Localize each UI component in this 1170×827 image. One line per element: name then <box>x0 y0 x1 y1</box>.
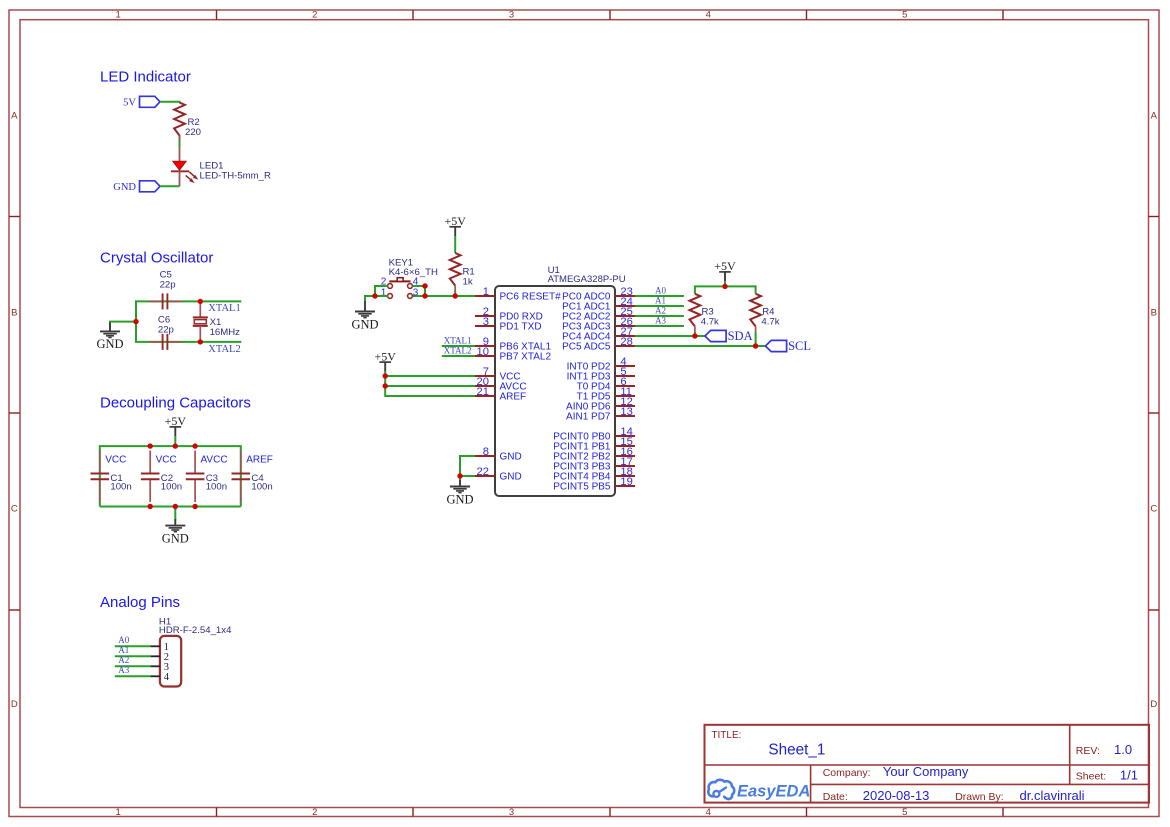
capacitor C3 <box>186 451 227 503</box>
pin 1 of H1 <box>151 642 169 653</box>
junction <box>148 504 153 509</box>
LED LED1 <box>171 147 271 186</box>
junction <box>422 293 427 298</box>
svg-text:C: C <box>1150 503 1157 514</box>
junction <box>457 473 462 478</box>
wire <box>160 185 180 187</box>
svg-text:AVCC: AVCC <box>201 454 228 465</box>
pin 17 PCINT3 PB3 <box>553 456 635 473</box>
svg-text:Drawn By:: Drawn By: <box>955 791 1003 803</box>
svg-text:GND: GND <box>446 492 473 506</box>
svg-text:Sheet:: Sheet: <box>1076 770 1106 782</box>
svg-text:AREF: AREF <box>500 392 527 403</box>
wire to ground <box>110 322 136 324</box>
junction <box>383 383 388 388</box>
resistor R2 <box>174 103 201 142</box>
svg-text:1: 1 <box>483 286 489 298</box>
svg-text:XTAL2: XTAL2 <box>208 344 240 355</box>
pin 19 PCINT5 PB5 <box>553 476 635 493</box>
svg-text:21: 21 <box>477 386 489 398</box>
wire bottom rail <box>100 506 241 508</box>
svg-text:1: 1 <box>116 10 121 21</box>
svg-text:16MHz: 16MHz <box>210 327 241 338</box>
svg-text:dr.clavinrali: dr.clavinrali <box>1020 788 1085 803</box>
svg-text:22p: 22p <box>160 280 176 291</box>
svg-text:A2: A2 <box>655 305 666 315</box>
wire A3 <box>115 675 151 677</box>
junction <box>133 319 138 324</box>
svg-text:XTAL1: XTAL1 <box>208 303 240 314</box>
svg-text:AIN1 PD7: AIN1 PD7 <box>566 412 611 423</box>
pin 4 INT0 PD2 <box>567 356 635 373</box>
svg-text:Decoupling Capacitors: Decoupling Capacitors <box>100 394 251 411</box>
svg-text:100n: 100n <box>251 482 272 493</box>
pin 14 PCINT0 PB0 <box>553 426 635 443</box>
capacitor C2 <box>141 451 182 503</box>
svg-text:+5V: +5V <box>444 214 466 228</box>
wire <box>635 305 684 307</box>
svg-text:AREF: AREF <box>246 454 273 465</box>
svg-text:C: C <box>11 503 18 514</box>
svg-text:A1: A1 <box>655 295 666 305</box>
wire SCL <box>635 345 765 347</box>
wire top rail <box>695 286 756 293</box>
junction <box>192 443 197 448</box>
svg-text:+5V: +5V <box>165 414 187 428</box>
pin 9 PB6 XTAL1 <box>475 336 551 353</box>
svg-text:10: 10 <box>477 346 489 358</box>
wire pin1 to gnd <box>365 296 388 302</box>
svg-text:220: 220 <box>185 127 201 138</box>
resistor R1 <box>450 253 475 291</box>
svg-text:5V: 5V <box>123 98 136 109</box>
svg-text:A0: A0 <box>655 285 666 295</box>
junction <box>198 339 203 344</box>
EasyEDA logo <box>708 780 810 801</box>
ground <box>96 323 123 352</box>
title block texts <box>711 730 1138 803</box>
capacitor C4 <box>232 451 273 503</box>
ground <box>351 301 378 331</box>
svg-text:3: 3 <box>509 10 514 21</box>
svg-text:13: 13 <box>620 406 632 418</box>
pin 15 PCINT1 PB1 <box>553 436 635 453</box>
wire <box>724 281 726 286</box>
pin 24 PC1 ADC1 <box>562 296 635 313</box>
net flag SCL <box>765 340 786 351</box>
svg-text:4: 4 <box>706 807 711 818</box>
pin 16 PCINT2 PB2 <box>553 446 635 463</box>
svg-text:3: 3 <box>509 807 514 818</box>
svg-text:TITLE:: TITLE: <box>711 730 741 741</box>
junction <box>173 443 178 448</box>
pin 6 T0 PD4 <box>577 376 635 393</box>
svg-text:3: 3 <box>413 287 419 298</box>
pin 28 PC5 ADC5 <box>562 336 635 353</box>
svg-text:1k: 1k <box>463 277 473 288</box>
wire SDA <box>635 335 705 337</box>
svg-text:8: 8 <box>483 446 489 458</box>
junction <box>692 333 697 338</box>
svg-text:VCC: VCC <box>156 454 177 465</box>
junction <box>372 293 377 298</box>
svg-text:2020-08-13: 2020-08-13 <box>863 788 930 803</box>
crystal X1 <box>193 301 240 342</box>
svg-text:PC5 ADC5: PC5 ADC5 <box>562 342 611 353</box>
power +5V <box>165 414 187 436</box>
wire XTAL1 top <box>136 301 241 342</box>
pin 3 PD1 TXD <box>475 316 542 333</box>
pin 2 of H1 <box>151 652 169 663</box>
svg-text:HDR-F-2.54_1x4: HDR-F-2.54_1x4 <box>159 625 232 636</box>
wire <box>385 375 475 377</box>
svg-text:A1: A1 <box>118 645 129 655</box>
wire <box>454 236 456 253</box>
wire from KEY1 to pin 1 <box>412 295 475 297</box>
wire <box>694 332 696 336</box>
wire <box>755 332 757 346</box>
svg-text:Company:: Company: <box>823 767 871 779</box>
wire <box>460 475 475 477</box>
svg-text:LED Indicator: LED Indicator <box>100 69 191 86</box>
pin 27 PC4 ADC4 <box>562 326 635 343</box>
capacitor C6 <box>148 314 182 350</box>
svg-text:LED-TH-5mm_R: LED-TH-5mm_R <box>200 171 271 182</box>
pin 11 T1 PD5 <box>577 386 635 403</box>
pin 5 INT1 PD3 <box>567 366 635 383</box>
pin 21 AREF <box>475 386 526 403</box>
svg-text:SCL: SCL <box>788 339 811 353</box>
pin 13 AIN1 PD7 <box>566 406 635 423</box>
svg-text:A2: A2 <box>118 655 129 665</box>
pin 12 AIN0 PD6 <box>566 396 635 413</box>
wire <box>635 315 684 317</box>
wire pin4 <box>412 286 425 296</box>
wire <box>454 291 456 296</box>
wire <box>460 456 475 481</box>
ground <box>162 519 189 545</box>
connector H1 <box>159 617 232 687</box>
svg-text:GND: GND <box>162 531 189 545</box>
svg-text:22: 22 <box>477 466 489 478</box>
title block <box>705 725 1150 803</box>
svg-text:Your Company: Your Company <box>883 764 969 779</box>
pin 1 PC6 RESET# <box>475 286 561 303</box>
wire <box>442 345 475 347</box>
junction <box>148 443 153 448</box>
wire A1 <box>115 655 151 657</box>
pin 23 PC0 ADC0 <box>562 286 635 303</box>
ground <box>446 480 473 506</box>
wire A2 <box>115 665 151 667</box>
svg-text:VCC: VCC <box>105 454 126 465</box>
svg-text:4: 4 <box>706 10 711 21</box>
wire <box>385 371 475 396</box>
pin 2 PD0 RXD <box>475 306 543 323</box>
svg-text:2: 2 <box>312 10 317 21</box>
svg-text:Crystal Oscillator: Crystal Oscillator <box>100 249 213 266</box>
wire <box>442 355 475 357</box>
pin 25 PC2 ADC2 <box>562 306 635 323</box>
pin 20 AVCC <box>475 376 527 393</box>
pin 7 VCC <box>475 366 521 383</box>
wire <box>635 295 684 297</box>
resistor R4 <box>750 294 780 333</box>
junction <box>383 373 388 378</box>
capacitor C1 <box>91 451 132 503</box>
svg-text:GND: GND <box>113 182 136 193</box>
net flag GND <box>140 181 161 192</box>
svg-text:GND: GND <box>351 317 378 331</box>
pin 8 GND <box>475 446 522 463</box>
svg-text:GND: GND <box>500 452 522 463</box>
wire pin2 to pin1 <box>375 286 388 296</box>
svg-text:PCINT5 PB5: PCINT5 PB5 <box>553 482 611 493</box>
wire <box>635 325 684 327</box>
svg-text:4.7k: 4.7k <box>701 316 719 327</box>
svg-text:SDA: SDA <box>728 329 753 343</box>
IC U1 ATMEGA328P-PU chip body <box>495 265 626 496</box>
svg-text:1.0: 1.0 <box>1114 742 1132 757</box>
svg-text:GND: GND <box>96 337 123 351</box>
svg-text:A: A <box>1151 110 1158 121</box>
wire gnd stem <box>174 507 176 521</box>
svg-text:100n: 100n <box>110 482 131 493</box>
svg-text:22p: 22p <box>158 324 174 335</box>
svg-text:PD1 TXD: PD1 TXD <box>500 322 542 333</box>
svg-text:100n: 100n <box>161 482 182 493</box>
svg-text:D: D <box>11 699 18 710</box>
wire A0 <box>115 645 151 647</box>
svg-text:100n: 100n <box>206 482 227 493</box>
pin 4 of H1 <box>151 672 170 683</box>
svg-text:5: 5 <box>902 807 907 818</box>
junction <box>422 283 427 288</box>
pin 22 GND <box>475 466 522 483</box>
svg-text:4.7k: 4.7k <box>761 316 779 327</box>
pin 10 PB7 XTAL2 <box>475 346 551 363</box>
svg-text:XTAL1: XTAL1 <box>444 335 472 345</box>
svg-text:A0: A0 <box>118 635 129 645</box>
pushbutton KEY1 <box>381 257 438 298</box>
junction <box>722 284 727 289</box>
svg-text:3: 3 <box>483 316 489 328</box>
svg-text:28: 28 <box>620 336 632 348</box>
svg-text:ATMEGA328P-PU: ATMEGA328P-PU <box>548 274 626 285</box>
junction <box>753 343 758 348</box>
junction <box>453 293 458 298</box>
wire <box>179 135 181 147</box>
svg-text:19: 19 <box>620 476 632 488</box>
wire <box>174 436 176 446</box>
wire top rail <box>100 446 241 506</box>
svg-text:A3: A3 <box>655 315 666 325</box>
svg-text:4: 4 <box>164 672 170 683</box>
svg-text:XTAL2: XTAL2 <box>444 345 472 355</box>
pin 3 of H1 <box>151 662 169 673</box>
capacitor C5 <box>148 269 182 309</box>
svg-text:D: D <box>1150 699 1157 710</box>
svg-text:5: 5 <box>902 10 907 21</box>
net flag 5V <box>140 96 161 107</box>
resistor R3 <box>690 294 720 333</box>
junction <box>198 299 203 304</box>
wire <box>160 102 180 103</box>
svg-text:EasyEDA: EasyEDA <box>737 783 810 801</box>
svg-text:GND: GND <box>500 472 522 483</box>
wire <box>385 385 475 387</box>
svg-text:1: 1 <box>116 807 121 818</box>
pin 26 PC3 ADC3 <box>562 316 635 333</box>
net flag SDA <box>705 330 726 341</box>
svg-text:A: A <box>11 110 18 121</box>
junction <box>192 504 197 509</box>
svg-text:1/1: 1/1 <box>1120 767 1138 782</box>
svg-text:REV:: REV: <box>1076 745 1100 757</box>
svg-text:PC6 RESET#: PC6 RESET# <box>500 292 562 303</box>
svg-text:Sheet_1: Sheet_1 <box>768 741 825 758</box>
svg-text:Analog Pins: Analog Pins <box>100 594 180 611</box>
svg-text:A3: A3 <box>118 665 129 675</box>
svg-text:+5V: +5V <box>374 349 396 363</box>
svg-text:2: 2 <box>312 807 317 818</box>
svg-text:B: B <box>11 307 17 318</box>
svg-text:Date:: Date: <box>823 791 848 803</box>
svg-text:+5V: +5V <box>714 259 736 273</box>
pin 18 PCINT4 PB4 <box>553 466 635 483</box>
junction <box>173 504 178 509</box>
svg-text:PB7 XTAL2: PB7 XTAL2 <box>500 352 552 363</box>
svg-text:B: B <box>1151 307 1157 318</box>
